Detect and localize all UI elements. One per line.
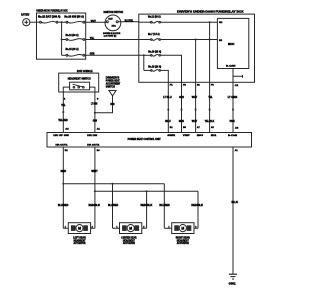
roof console box	[59, 73, 99, 92]
svg-text:BLK/YEL: BLK/YEL	[125, 19, 134, 22]
wire row D to corner down	[161, 70, 169, 132]
node (row C to row D link)	[143, 54, 145, 56]
svg-text:No.7 (7.5 A): No.7 (7.5 A)	[148, 33, 160, 36]
svg-text:DRIVER'S UNDER-DASH FUSE/RELAY: DRIVER'S UNDER-DASH FUSE/RELAY BOX	[177, 11, 244, 14]
svg-text:WHT: WHT	[192, 120, 198, 123]
svg-text:S2: S2	[197, 84, 201, 86]
wire row C to corner	[161, 55, 182, 132]
wire row1 box exit	[85, 21, 107, 23]
svg-text:GRN: GRN	[179, 96, 184, 99]
node bus B at right wire	[94, 190, 96, 192]
svg-text:YEL: YEL	[208, 96, 213, 99]
node (row A tap)	[209, 21, 211, 23]
svg-text:A7: A7	[197, 126, 201, 129]
ground G501	[229, 274, 237, 279]
power seat control unit	[47, 133, 252, 148]
wire roof console right down	[94, 92, 96, 133]
svg-text:G501: G501	[229, 282, 237, 285]
svg-text:HEADREST: HEADREST	[123, 239, 136, 242]
seat adjustment switch connector (triangle)	[109, 91, 116, 96]
fuse No.18 (20 A)	[151, 70, 161, 72]
node bus A at left wire	[62, 183, 64, 185]
wire row B tap down	[195, 40, 197, 133]
svg-text:B5: B5	[219, 40, 223, 42]
wire fuse1 to node	[58, 21, 66, 23]
svg-text:POWER SEAT CONTROL UNIT: POWER SEAT CONTROL UNIT	[128, 138, 162, 141]
svg-text:YEL: YEL	[61, 104, 66, 107]
headrest switch S1	[70, 82, 90, 90]
svg-text:M: M	[78, 227, 81, 231]
wire MICU B-CAN down	[232, 69, 234, 133]
svg-text:RED: RED	[61, 170, 67, 173]
svg-text:MICU: MICU	[228, 43, 235, 46]
motor M3 label	[176, 237, 190, 246]
wire (row 1 inside box)	[37, 21, 40, 23]
wire B-CAN stub	[233, 75, 243, 78]
wire (link C to D)	[143, 55, 145, 70]
svg-text:RED/BLK: RED/BLK	[141, 204, 153, 207]
connector on wire 3	[195, 109, 197, 111]
svg-text:M: M	[181, 227, 184, 231]
svg-text:IG1: IG1	[112, 26, 117, 28]
svg-text:UNDER-HOOD FUSE/RELAY BOX: UNDER-HOOD FUSE/RELAY BOX	[36, 9, 67, 12]
svg-text:BLU/RED: BLU/RED	[159, 204, 169, 207]
svg-text:BLU/RED: BLU/RED	[108, 204, 118, 207]
svg-text:F1: F1	[170, 84, 174, 86]
svg-text:B1: B1	[170, 127, 174, 129]
battery	[23, 19, 30, 26]
svg-text:ADJUSTMENT: ADJUSTMENT	[106, 83, 121, 86]
svg-text:BLU/RED: BLU/RED	[58, 204, 69, 207]
fuse No.7 (7.5 A)	[151, 39, 161, 41]
svg-text:B5: B5	[183, 127, 187, 129]
seat adjustment switch label	[106, 77, 121, 88]
wire switch right stub	[90, 87, 95, 92]
svg-text:BLK: BLK	[232, 201, 239, 204]
fuse No.19 (20 A)	[151, 55, 161, 57]
wire (row 3 from bus corner)	[62, 54, 66, 56]
wire bus B	[95, 190, 198, 192]
under-dash fuse/relay box	[139, 14, 255, 82]
connector on left wire	[62, 111, 64, 113]
svg-text:SWR: SWR	[167, 135, 175, 137]
svg-text:A3: A3	[65, 127, 69, 130]
wire drop motor2 right	[146, 191, 148, 228]
connector on wire 2	[181, 109, 183, 111]
motor M1 (left rear headrest actuator)	[63, 223, 95, 234]
svg-text:No.15 (40 A): No.15 (40 A)	[66, 48, 79, 51]
fuse No.21 (20 A)	[151, 21, 161, 23]
node (row B tap 1)	[195, 39, 197, 41]
wire switch left stub	[63, 87, 69, 92]
node (row 2 tap)	[61, 39, 63, 41]
motor M3 (right rear headrest actuator)	[164, 223, 198, 234]
svg-text:WHT: WHT	[91, 20, 96, 23]
svg-text:HEADREST: HEADREST	[74, 239, 87, 242]
svg-text:HR UP SW: HR UP SW	[53, 135, 70, 137]
wire control unit to ground	[232, 147, 234, 274]
svg-text:ROOF CONSOLE: ROOF CONSOLE	[77, 70, 93, 73]
svg-text:CENTER REAR: CENTER REAR	[121, 237, 137, 240]
connector on B-CAN wire	[232, 109, 234, 111]
node (under-hood bus junction)	[61, 21, 63, 23]
wire row 3 to under-dash box	[85, 54, 144, 56]
svg-text:LT GRN: LT GRN	[91, 103, 98, 106]
svg-text:GRN: GRN	[90, 53, 95, 56]
svg-text:BATTERY: BATTERY	[21, 14, 29, 17]
svg-text:RED/BLK: RED/BLK	[89, 204, 101, 207]
svg-text:F2: F2	[183, 84, 187, 86]
wire (row D)	[144, 69, 151, 71]
svg-text:B-CAN: B-CAN	[228, 134, 238, 137]
svg-text:YEL/BLK: YEL/BLK	[205, 120, 215, 123]
wire drop motor2 left	[112, 184, 114, 229]
wire drop motor3 left	[163, 184, 165, 229]
svg-text:HR OUT2: HR OUT2	[87, 145, 100, 147]
node bus A at motor2	[112, 183, 114, 185]
wire control unit right output down	[94, 147, 96, 228]
wire drop motor3 right	[197, 191, 199, 228]
wire row 2 to under-dash box	[85, 39, 139, 41]
wire bus A	[63, 183, 164, 185]
motor M2 label	[121, 237, 137, 246]
svg-text:LEFT REAR: LEFT REAR	[73, 237, 86, 240]
svg-text:M: M	[129, 227, 132, 231]
wire roof console left down	[62, 92, 64, 133]
node (BRN joins)	[94, 112, 96, 114]
svg-text:BAT: BAT	[108, 17, 113, 20]
fuse No.15 (40 A)	[66, 54, 85, 56]
wire row A to MICU	[161, 21, 218, 23]
svg-text:BLU: BLU	[165, 120, 170, 123]
svg-text:GRN: GRN	[93, 120, 97, 123]
svg-text:YEL/RED: YEL/RED	[58, 119, 68, 122]
svg-text:BRN: BRN	[110, 103, 114, 106]
svg-text:A5: A5	[211, 126, 215, 129]
connector on wire 4	[209, 109, 211, 111]
svg-text:DRIVER'S: DRIVER'S	[106, 77, 120, 79]
fuse No.22 BAT (100 A)	[40, 21, 58, 23]
svg-text:A6: A6	[235, 127, 239, 130]
svg-text:ACTUATOR: ACTUATOR	[123, 242, 135, 245]
svg-text:ID1: ID1	[211, 135, 218, 137]
connector on wire 1	[167, 109, 169, 111]
svg-text:1: 1	[64, 98, 67, 100]
svg-text:6: 6	[97, 98, 100, 100]
svg-text:HEADREST SWITCH: HEADREST SWITCH	[68, 78, 91, 81]
svg-text:No.19 (20 A): No.19 (20 A)	[148, 50, 161, 53]
svg-text:LT GRN: LT GRN	[228, 96, 238, 99]
svg-text:B6: B6	[97, 150, 101, 152]
svg-text:HR DN: HR DN	[87, 135, 97, 137]
wire (row C inside box)	[144, 54, 151, 56]
wire row A tap down	[209, 22, 211, 132]
fuse No.13 (30 A)	[66, 39, 85, 41]
svg-text:B-CAN: B-CAN	[226, 65, 236, 68]
fuse No.23 IGN (50 A)	[66, 21, 85, 23]
MICU U1	[217, 18, 248, 68]
svg-text:ACTUATOR: ACTUATOR	[177, 242, 189, 245]
wire from triangle	[95, 96, 113, 113]
svg-text:LT BLU: LT BLU	[163, 96, 172, 99]
svg-text:B2: B2	[65, 150, 69, 152]
svg-text:A1: A1	[235, 149, 239, 152]
svg-text:RED/BLK: RED/BLK	[191, 204, 203, 207]
svg-text:IBU: IBU	[197, 135, 204, 137]
svg-text:A1: A1	[97, 127, 101, 130]
node bus B at motor2	[146, 190, 148, 192]
wire ignition IG1 to under-dash box	[118, 21, 139, 23]
svg-text:No.13 (30 A): No.13 (30 A)	[66, 34, 79, 37]
svg-text:F3: F3	[211, 84, 215, 86]
under-hood fuse/relay box	[37, 13, 86, 59]
svg-text:POWER SEAT: POWER SEAT	[106, 80, 120, 83]
svg-text:No.23 IGN (50 A): No.23 IGN (50 A)	[64, 15, 84, 18]
svg-text:IG1: IG1	[219, 22, 223, 24]
svg-text:WHT: WHT	[91, 170, 98, 173]
wire (row 2 from bus)	[62, 39, 66, 41]
wire battery to under-hood box	[30, 21, 37, 23]
svg-text:SWITCH: SWITCH	[106, 87, 115, 89]
svg-text:No.22 BAT (100 A): No.22 BAT (100 A)	[38, 15, 61, 18]
motor M2 (center rear headrest actuator)	[113, 223, 147, 234]
svg-text:HR OUT1: HR OUT1	[56, 145, 69, 147]
svg-text:VWP: VWP	[183, 135, 191, 137]
wire (under-hood vertical bus)	[61, 22, 63, 55]
wire (row A inside box)	[139, 21, 151, 23]
svg-text:PNK: PNK	[230, 120, 235, 123]
svg-text:GRN: GRN	[179, 120, 184, 123]
motor M1 label	[73, 237, 86, 246]
svg-text:No.18 (20 A): No.18 (20 A)	[148, 66, 161, 69]
svg-text:HEADREST: HEADREST	[177, 239, 190, 242]
wire (row B inside box)	[139, 39, 151, 41]
svg-text:IGNITION SWITCH: IGNITION SWITCH	[104, 11, 124, 14]
node (row B tap 2)	[209, 39, 211, 41]
wire control unit left output down	[62, 147, 64, 228]
svg-text:C1: C1	[235, 85, 240, 87]
svg-text:RIGHT REAR: RIGHT REAR	[176, 237, 190, 240]
svg-text:No.21 (20 A): No.21 (20 A)	[148, 15, 161, 18]
ignition switch	[105, 15, 121, 31]
svg-text:WHT: WHT	[192, 96, 198, 99]
svg-text:YEL: YEL	[90, 37, 95, 40]
wire row B to MICU	[161, 39, 218, 41]
svg-text:ACTUATOR: ACTUATOR	[74, 242, 86, 245]
svg-text:and START (II): and START (II)	[104, 34, 117, 37]
